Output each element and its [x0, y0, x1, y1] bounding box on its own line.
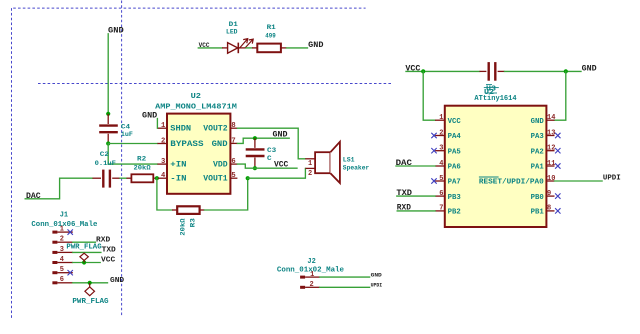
svg-text:GND: GND	[582, 64, 597, 73]
svg-text:GND: GND	[212, 139, 228, 149]
resistor R2 20k	[127, 155, 157, 182]
svg-text:PA7: PA7	[448, 179, 461, 187]
svg-text:VOUT2: VOUT2	[203, 124, 227, 134]
svg-text:PB2: PB2	[448, 209, 461, 217]
svg-text:1: 1	[308, 160, 312, 168]
svg-text:VDD: VDD	[213, 160, 228, 170]
svg-text:C2: C2	[100, 151, 109, 159]
resistor R3 20k (feedback)	[172, 206, 205, 235]
no-connect U3 PA2	[555, 148, 560, 153]
microcontroller U3 ATtiny1614	[435, 85, 555, 227]
svg-text:Conn_01x06_Male: Conn_01x06_Male	[31, 221, 97, 229]
svg-text:5: 5	[231, 172, 235, 180]
svg-text:LED: LED	[226, 28, 238, 36]
svg-text:4: 4	[439, 160, 443, 168]
svg-text:2: 2	[161, 137, 165, 145]
svg-text:499: 499	[265, 33, 276, 41]
wire U2 pin 7 to GND label	[237, 138, 289, 143]
op-amp U2 AMP_MONO_LM4871M	[155, 93, 237, 194]
resistor R1 499	[252, 24, 287, 52]
svg-text:13: 13	[547, 129, 555, 137]
svg-text:C: C	[267, 155, 272, 163]
svg-text:PWR_FLAG: PWR_FLAG	[66, 244, 101, 252]
capacitor C2	[93, 151, 121, 188]
wire C5 to GND label	[505, 70, 582, 72]
power flag PWR_FLAG on VCC	[66, 244, 101, 263]
no-connect U3 PA3	[555, 133, 560, 138]
svg-text:2: 2	[439, 129, 443, 137]
svg-text:VCC: VCC	[101, 257, 116, 265]
wire BYPASS net to U2 pin 2	[108, 143, 157, 145]
wire RXD to U3 pin 7	[397, 210, 435, 212]
wire TXD to U3 pin 6	[397, 195, 435, 197]
svg-text:AMP_MONO_LM4871M: AMP_MONO_LM4871M	[155, 104, 237, 112]
svg-text:PA4: PA4	[448, 133, 462, 141]
svg-text:-IN: -IN	[170, 174, 186, 184]
dashed guide line horizontal y=83.5	[38, 83, 392, 85]
wire VCC rail down to U3 pin 1	[423, 71, 435, 120]
junction C3 top	[253, 136, 257, 140]
svg-text:C3: C3	[267, 147, 276, 155]
svg-text:4: 4	[161, 172, 166, 180]
svg-text:6: 6	[60, 276, 64, 284]
wire DAC to U3 pin 4	[396, 165, 435, 167]
svg-text:VCC: VCC	[274, 161, 288, 170]
svg-text:PA6: PA6	[448, 164, 461, 172]
svg-text:VCC: VCC	[448, 118, 462, 126]
svg-text:R3: R3	[189, 218, 197, 227]
svg-text:R1: R1	[267, 24, 276, 32]
svg-text:GND: GND	[142, 111, 157, 120]
no-connect U3 PA5	[431, 148, 436, 153]
svg-text:8: 8	[547, 205, 551, 213]
svg-text:3: 3	[439, 145, 443, 153]
capacitor C4	[99, 114, 133, 144]
svg-text:3: 3	[60, 246, 64, 254]
svg-text:ATtiny1614: ATtiny1614	[474, 95, 517, 103]
svg-text:1: 1	[161, 122, 166, 130]
wire VCC to D1	[198, 47, 222, 49]
junction J1 pin6 PWR_FLAG	[88, 281, 92, 285]
junction above C4	[106, 112, 110, 116]
svg-text:14: 14	[547, 114, 555, 122]
wire feedback to VOUT1 node	[205, 178, 248, 210]
svg-text:R2: R2	[137, 155, 146, 163]
svg-text:11: 11	[547, 160, 555, 168]
svg-text:PB0: PB0	[531, 194, 544, 202]
LED D1	[222, 21, 253, 53]
wire J1 pin6 to GND	[73, 282, 108, 284]
svg-text:7: 7	[231, 137, 235, 145]
svg-text:RESET/UPDI/PA0: RESET/UPDI/PA0	[479, 179, 544, 187]
svg-text:0.1uF: 0.1uF	[95, 160, 116, 168]
wire GND vertical	[107, 34, 109, 114]
svg-text:1: 1	[310, 271, 314, 279]
svg-text:20kΩ: 20kΩ	[179, 219, 187, 236]
svg-text:2: 2	[309, 281, 313, 289]
wire J2 pin2 to UPDI	[320, 286, 370, 288]
svg-text:BYPASS: BYPASS	[170, 139, 203, 149]
dashed guide line vertical x=121.6	[121, 1, 123, 316]
wire J2 pin1 to GND	[320, 276, 370, 278]
no-connect J1 pin 5	[68, 270, 73, 275]
svg-text:9: 9	[547, 190, 551, 198]
svg-text:6: 6	[439, 190, 443, 198]
no-connect U3 PA1	[555, 163, 560, 168]
junction VCC rail	[421, 69, 425, 73]
wire R1 to GND label	[287, 47, 308, 49]
no-connect U3 PA7	[431, 178, 436, 183]
svg-text:U2: U2	[191, 93, 202, 101]
wire J1 pin4 to VCC	[73, 262, 100, 264]
junction C3 bottom	[253, 166, 257, 170]
svg-text:8: 8	[231, 122, 235, 130]
svg-text:1uF: 1uF	[121, 131, 133, 139]
wire VOUT1 to speaker pin 2	[248, 168, 306, 178]
svg-text:PWR_FLAG: PWR_FLAG	[72, 298, 108, 306]
svg-text:GND: GND	[273, 131, 288, 140]
svg-text:GND: GND	[110, 277, 125, 285]
wire J1 pin2 to RXD	[73, 241, 96, 243]
svg-text:GND: GND	[531, 118, 545, 126]
junction -IN node	[155, 176, 159, 180]
wire DAC to C2	[25, 178, 92, 199]
wire GND label to SHDN	[156, 119, 158, 129]
wire +IN net to U2 pin 3	[108, 163, 157, 165]
junction GND rail	[564, 69, 568, 73]
svg-text:Speaker: Speaker	[343, 165, 370, 173]
svg-text:5: 5	[60, 266, 64, 274]
svg-text:3: 3	[161, 158, 165, 166]
svg-text:+IN: +IN	[170, 160, 186, 170]
svg-text:GND: GND	[308, 41, 323, 50]
svg-text:5: 5	[439, 175, 443, 183]
wire VOUT2 to speaker pin 1	[237, 128, 305, 159]
dashed guide line vertical left	[11, 8, 13, 318]
svg-text:GND: GND	[108, 26, 124, 35]
svg-text:LS1: LS1	[343, 157, 355, 165]
svg-text:PA2: PA2	[531, 148, 544, 156]
junction VOUT1 node	[246, 176, 250, 180]
wire VCC rail to C5	[406, 70, 480, 72]
svg-text:J1: J1	[60, 212, 68, 220]
no-connect U3 PB1	[555, 208, 560, 213]
wire U3 pin 10 to UPDI	[555, 180, 603, 182]
svg-text:PA1: PA1	[531, 164, 545, 172]
svg-text:UPDI: UPDI	[603, 175, 621, 183]
capacitor C5 (decoupling)	[480, 62, 505, 81]
power flag PWR_FLAG on GND	[72, 283, 108, 306]
svg-text:20kΩ: 20kΩ	[134, 165, 151, 173]
svg-text:VOUT1: VOUT1	[203, 174, 227, 184]
no-connect U3 PB0	[555, 193, 560, 198]
svg-text:PB1: PB1	[531, 209, 545, 217]
junction below C4 / BYPASS node	[106, 141, 110, 145]
dashed guide line horizontal top	[13, 7, 365, 9]
wire BYPASS node down to +IN row	[107, 144, 109, 165]
svg-text:1: 1	[60, 226, 64, 234]
wire J1 pin3 to TXD	[73, 251, 101, 253]
svg-text:6: 6	[231, 158, 235, 166]
svg-text:4: 4	[60, 256, 64, 264]
connector J2 Conn_01x02_Male	[277, 258, 344, 289]
svg-text:PA5: PA5	[448, 148, 461, 156]
wire C2 to R2	[120, 177, 127, 179]
no-connect U3 PA4	[431, 133, 436, 138]
capacitor C3	[246, 138, 277, 168]
speaker LS1	[305, 142, 369, 183]
svg-text:UPDI: UPDI	[371, 283, 383, 289]
wire -IN node down to feedback row	[157, 178, 172, 210]
svg-text:PA3: PA3	[531, 133, 545, 141]
svg-text:PB3: PB3	[448, 194, 462, 202]
svg-text:12: 12	[547, 145, 555, 153]
connector J1 Conn_01x06_Male	[31, 212, 97, 285]
junction J1 pin4 PWR_FLAG	[82, 260, 86, 264]
svg-text:J2: J2	[307, 258, 315, 266]
wire GND rail down to U3 pin 14	[555, 71, 566, 120]
svg-text:1: 1	[439, 114, 443, 122]
no-connect J1 pin 1	[68, 229, 73, 234]
svg-text:2: 2	[60, 236, 64, 244]
wire D1 to R1	[246, 47, 252, 49]
wire U2 pin 6 to VCC label	[237, 164, 297, 168]
svg-text:TXD: TXD	[102, 247, 117, 255]
svg-text:GND: GND	[371, 272, 382, 278]
svg-text:2: 2	[308, 170, 312, 178]
svg-text:SHDN: SHDN	[170, 124, 191, 134]
svg-text:7: 7	[439, 205, 443, 213]
